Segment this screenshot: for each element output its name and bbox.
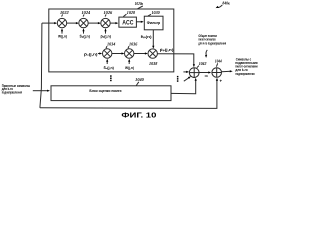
svg-text:+: + bbox=[220, 78, 223, 83]
label 1020e bbox=[135, 1, 144, 6]
input W(j,n) to 1036 bbox=[128, 60, 130, 64]
svg-text:поднаправления: поднаправления bbox=[2, 90, 22, 94]
multiplier 1034 bbox=[103, 49, 112, 58]
multiplier 1026 bbox=[101, 18, 110, 27]
svg-text:1034: 1034 bbox=[107, 42, 115, 47]
wire input riser bbox=[40, 23, 42, 108]
svg-text:для k-го поднаправления: для k-го поднаправления bbox=[198, 41, 226, 45]
arrow ACC to filter bbox=[136, 21, 142, 23]
estimator box 1020e bbox=[49, 9, 174, 72]
filter output wire down to 1038 bbox=[152, 30, 154, 47]
svg-text:1020в: 1020в bbox=[135, 1, 144, 6]
arrow 1036 to 1038 bbox=[134, 53, 147, 55]
svg-text:ФИГ. 10: ФИГ. 10 bbox=[121, 110, 156, 119]
wire bottom run to adder 1044 bbox=[40, 79, 217, 108]
svg-text:1038: 1038 bbox=[149, 61, 157, 66]
svg-text:Блок оценки помех: Блок оценки помех bbox=[89, 89, 121, 93]
noise estimator box 1040 bbox=[51, 86, 171, 101]
multiplier 1022 bbox=[57, 18, 66, 27]
arrow other fingers into 1042 left bbox=[183, 71, 187, 73]
svg-text:S̃ᵤ(j,n): S̃ᵤ(j,n) bbox=[104, 66, 114, 70]
input W(j,n) to 1022 bbox=[61, 30, 63, 34]
arrow 1026 to ACC bbox=[110, 22, 117, 24]
svg-text:1022: 1022 bbox=[60, 10, 69, 15]
adder 1042 bbox=[189, 68, 199, 78]
svg-text:≈: ≈ bbox=[205, 75, 208, 79]
multiplier 1024 bbox=[79, 18, 88, 27]
svg-text:h̃ₚ(n): h̃ₚ(n) bbox=[141, 35, 152, 39]
svg-text:1036: 1036 bbox=[129, 42, 137, 47]
svg-text:ACC: ACC bbox=[122, 20, 134, 26]
svg-text:1042: 1042 bbox=[199, 61, 207, 66]
ellipsis dots right bbox=[177, 76, 179, 82]
output arrow samples bbox=[222, 70, 232, 73]
arrow 1024 to 1026 bbox=[88, 22, 99, 24]
input Su(j,n) to 1034 bbox=[106, 60, 108, 64]
text output samples bbox=[235, 57, 257, 75]
svg-text:p̃ₚ(j,n): p̃ₚ(j,n) bbox=[160, 48, 174, 52]
input text received samples bbox=[2, 84, 31, 94]
figure caption bbox=[121, 110, 156, 119]
arrow 1034 to 1036 bbox=[112, 53, 123, 55]
adder 1044 bbox=[212, 68, 222, 78]
wire 1038 output pp(j,n) to 1042 top bbox=[157, 54, 193, 66]
svg-text:840к: 840к bbox=[222, 0, 230, 5]
multiplier 1038 bbox=[148, 49, 157, 58]
input pp(j,n) to 1026 bbox=[105, 30, 107, 34]
wire noise box to 1042 bottom bbox=[171, 79, 196, 93]
wire into multiplier 1022 bbox=[42, 22, 56, 24]
filter box 1030 bbox=[144, 16, 163, 30]
multiplier 1036 bbox=[125, 49, 134, 58]
label 840k with leader arrow bbox=[222, 0, 230, 5]
svg-text:p̃ₚ(j,n): p̃ₚ(j,n) bbox=[101, 34, 111, 38]
diagonal arrow other fingers into 1042 bbox=[184, 78, 190, 82]
ellipsis dots left bbox=[110, 75, 112, 81]
svg-text:W(j,n): W(j,n) bbox=[58, 34, 67, 38]
svg-text:Фильтр: Фильтр bbox=[147, 21, 160, 25]
wire 1042 to 1044 bbox=[199, 72, 209, 74]
svg-text:1024: 1024 bbox=[82, 10, 91, 15]
svg-text:p̃ᵤ(j,n): p̃ᵤ(j,n) bbox=[84, 52, 98, 56]
svg-text:1026: 1026 bbox=[104, 10, 113, 15]
svg-text:W(j,n): W(j,n) bbox=[125, 66, 134, 70]
input Sp(j,n) to 1024 bbox=[83, 30, 85, 34]
svg-text:S̃ₚ(j,n): S̃ₚ(j,n) bbox=[80, 34, 90, 38]
text total pilot interference bbox=[198, 34, 226, 45]
svg-text:поднаправления: поднаправления bbox=[235, 72, 254, 76]
input label pu(j,n) row2 bbox=[84, 52, 98, 56]
ACC box 1028 bbox=[119, 17, 136, 27]
input arrow received samples bbox=[33, 90, 48, 92]
svg-text:1044: 1044 bbox=[215, 59, 222, 64]
arrow 1022 to 1024 bbox=[67, 22, 78, 24]
svg-text:1040: 1040 bbox=[135, 77, 144, 82]
svg-text:1030: 1030 bbox=[152, 10, 160, 15]
svg-text:1028: 1028 bbox=[127, 10, 135, 15]
